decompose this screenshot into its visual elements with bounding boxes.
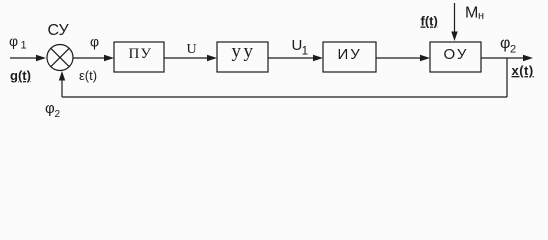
svg-text:ОУ: ОУ xyxy=(444,46,469,63)
svg-text:уу: уу xyxy=(232,41,256,62)
wire: СУ output to block ПУ xyxy=(73,55,114,61)
svg-text:φ: φ xyxy=(90,34,99,50)
svg-text:2: 2 xyxy=(55,109,61,120)
svg-text:g(t): g(t) xyxy=(10,68,31,83)
block ОУ xyxy=(430,42,481,72)
block УУ xyxy=(217,42,268,72)
wire: feedback tap down from output node xyxy=(506,58,508,97)
wire: УУ to ИУ, signal U1 xyxy=(268,55,323,61)
svg-text:φ: φ xyxy=(500,35,510,52)
label Mн xyxy=(465,5,484,23)
wire: input g(t) arrow into summing junction xyxy=(10,55,46,61)
wire: disturbance f(t)/Mн arrow into top of ОУ xyxy=(451,3,457,41)
svg-text:1: 1 xyxy=(302,44,309,58)
label φ1 (input) xyxy=(9,33,27,52)
label φ2 (feedback, bottom) xyxy=(45,100,61,120)
svg-text:ИУ: ИУ xyxy=(338,46,362,63)
svg-text:φ: φ xyxy=(45,100,55,117)
svg-text:ПУ: ПУ xyxy=(129,46,152,62)
svg-text:φ: φ xyxy=(9,33,18,49)
svg-text:M: M xyxy=(465,5,478,22)
svg-text:н: н xyxy=(478,10,484,22)
wire: ПУ to УУ, signal U xyxy=(164,55,217,61)
svg-text:x(t): x(t) xyxy=(512,63,534,78)
block ПУ xyxy=(114,42,164,72)
svg-text:СУ: СУ xyxy=(48,22,70,39)
label U1 xyxy=(292,37,309,58)
summing junction СУ (comparator circle with X) xyxy=(47,45,73,71)
svg-text:1: 1 xyxy=(21,40,27,52)
wire: ОУ output arrow, signal φ2 / x(t) xyxy=(481,55,533,61)
label φ2 (output, top) xyxy=(500,35,516,56)
wire: ИУ to ОУ xyxy=(376,55,430,61)
svg-text:2: 2 xyxy=(510,44,516,56)
wire: feedback rise into СУ with up arrow xyxy=(59,71,65,97)
block ИУ xyxy=(323,42,376,72)
svg-text:f(t): f(t) xyxy=(421,14,438,29)
svg-text:U: U xyxy=(187,42,197,57)
wire: feedback bottom run xyxy=(62,96,507,98)
svg-text:ε(t): ε(t) xyxy=(79,68,97,83)
